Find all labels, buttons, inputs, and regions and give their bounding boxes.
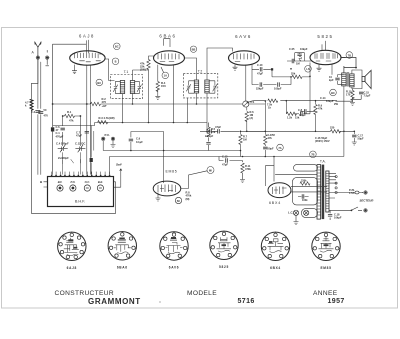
ref BC speaker — [330, 89, 337, 96]
antenna — [35, 42, 41, 57]
capacitor C5 47pF — [85, 131, 89, 133]
svg-text:T.2: T.2 — [198, 69, 203, 73]
B.H.F. tuner block — [48, 177, 114, 207]
resistor V2 cathode — [157, 72, 159, 96]
capacitor across primary — [338, 75, 344, 85]
svg-text:47μF: 47μF — [257, 72, 263, 76]
svg-text:0.1μF: 0.1μF — [299, 113, 306, 117]
cap in rect loop — [302, 194, 304, 198]
svg-text:170: 170 — [346, 93, 351, 97]
resistor 220k in rect loop — [300, 182, 310, 185]
tube V2 6BA6 envelope — [154, 39, 185, 123]
svg-text:100pF: 100pF — [274, 87, 282, 91]
svg-text:7.5μF: 7.5μF — [364, 94, 371, 98]
svg-text:6AJ8: 6AJ8 — [79, 34, 95, 39]
resistor 0.47M vert — [264, 131, 266, 134]
wire AVC line y150.5 — [103, 150, 240, 152]
svg-text:C.10: C.10 — [257, 63, 263, 67]
T2 trimmer capacitor right — [209, 81, 217, 93]
wire AF line y101 — [249, 101, 287, 132]
svg-text:6AV6: 6AV6 — [169, 266, 180, 270]
wire AVC into em85 zone — [240, 151, 242, 157]
terminal T — [45, 56, 49, 60]
svg-text:B.F.: B.F. — [58, 180, 63, 184]
wire antenna down and outer loop — [32, 60, 116, 214]
terminal pad — [271, 68, 273, 70]
ref LS — [305, 66, 312, 73]
tube V1 6AJ8 envelope — [70, 40, 105, 71]
socket base 6BA6 — [108, 231, 137, 269]
capacitor C2 50pF — [36, 111, 40, 113]
svg-text:(M): (M) — [186, 197, 190, 201]
ref MI — [207, 167, 214, 174]
wire screen bus y122.5-125.5 — [53, 123, 207, 126]
ground V4 — [317, 68, 322, 71]
capacitor C6 47pF — [61, 128, 65, 130]
svg-text:T.A.: T.A. — [320, 160, 326, 164]
svg-text:470k: 470k — [245, 167, 251, 171]
ref 17B — [310, 151, 317, 158]
capacitor C16 across mains — [329, 210, 331, 220]
svg-text:220: 220 — [330, 126, 335, 130]
T1 trimmer capacitor right — [135, 81, 142, 93]
IF transformer T1 box — [111, 75, 143, 99]
svg-text:6BX4: 6BX4 — [270, 266, 281, 270]
svg-text:6BX4: 6BX4 — [269, 201, 281, 205]
svg-text:BC: BC — [331, 91, 335, 95]
ref B — [112, 58, 119, 65]
wire HT to rectifier — [265, 157, 274, 187]
capacitor tone 0.1uF — [301, 110, 316, 112]
ground V3 pin — [234, 65, 236, 67]
svg-text:7B: 7B — [348, 53, 351, 57]
svg-text:0.1μF: 0.1μF — [136, 140, 143, 144]
TA core — [322, 165, 325, 220]
capacitor decoupling blob — [90, 158, 93, 162]
svg-text:+HT: +HT — [102, 104, 108, 108]
capacitor C10 — [260, 67, 262, 71]
electrolytic C 50uF — [353, 131, 355, 134]
wire V3 plate down — [243, 66, 245, 105]
resistor 220R — [331, 130, 341, 133]
svg-text:10kpF: 10kpF — [300, 47, 308, 51]
svg-text:6BA6: 6BA6 — [117, 265, 128, 269]
ref BB — [190, 46, 196, 52]
TA secondary winding — [326, 171, 329, 212]
svg-text:47pF: 47pF — [76, 134, 82, 138]
svg-text:(A): (A) — [250, 116, 254, 120]
ref BC mid — [96, 79, 103, 86]
svg-text:5825: 5825 — [317, 34, 333, 39]
svg-text:470: 470 — [102, 100, 107, 104]
grid network C05 — [287, 53, 310, 61]
HT loop 2 — [293, 178, 318, 205]
svg-text:2W: 2W — [334, 102, 338, 106]
socket base 6BX4 — [261, 232, 290, 270]
T1 secondary coil — [130, 81, 134, 94]
svg-text:BC: BC — [115, 45, 119, 49]
potentiometer P1 volume — [243, 101, 249, 107]
svg-text:150: 150 — [161, 84, 166, 88]
svg-text:2x460pF: 2x460pF — [58, 156, 69, 160]
wire T1 screen drop — [123, 94, 188, 123]
resistor det 25k — [272, 63, 310, 77]
svg-text:SC: SC — [177, 200, 181, 203]
wire screen feeds to block — [91, 126, 94, 175]
svg-text:5825: 5825 — [219, 265, 229, 269]
resistor R2 470 on bus — [91, 102, 101, 105]
capacitor C1 470pF — [51, 127, 54, 131]
tube V4 5825 envelope — [310, 41, 341, 75]
tube V3 6AV6 envelope — [229, 51, 260, 101]
svg-text:7A: 7A — [278, 146, 281, 150]
svg-text:220k: 220k — [301, 180, 307, 183]
output transformer core — [347, 72, 349, 87]
svg-text:GRAMMONT: GRAMMONT — [88, 297, 141, 306]
node dots — [122, 122, 124, 124]
mains switch — [347, 207, 362, 210]
svg-text:SECTEUR: SECTEUR — [360, 199, 375, 203]
svg-text:50μF: 50μF — [358, 137, 364, 141]
T2 trimmer capacitor left — [186, 81, 194, 93]
capacitor C3 470pF — [39, 112, 43, 114]
T2 primary coil — [194, 80, 198, 93]
resistor antenna 4.7k — [30, 100, 33, 111]
svg-text:6AV6: 6AV6 — [235, 34, 252, 39]
svg-text:10kpF: 10kpF — [334, 216, 342, 220]
TA taps — [329, 173, 347, 210]
wire T2 secondary to detector — [207, 48, 233, 131]
svg-text:1M: 1M — [243, 138, 247, 142]
svg-text:R.3: R.3 — [99, 116, 104, 120]
T1 trimmer capacitor left — [113, 81, 120, 93]
svg-text:BB: BB — [192, 48, 196, 52]
wire AF B+ continue — [286, 100, 337, 102]
svg-text:47k: 47k — [211, 130, 216, 134]
wire V1 plate to T1 — [105, 59, 115, 81]
svg-text:10kpF: 10kpF — [326, 99, 334, 103]
svg-text:EM85: EM85 — [166, 170, 178, 174]
svg-text:B: B — [115, 60, 117, 64]
wire B+ line y131.5 — [200, 130, 354, 132]
svg-text:MODELE: MODELE — [187, 290, 217, 297]
capacitor C near em85 — [219, 157, 243, 163]
svg-text:5716: 5716 — [238, 298, 255, 305]
wire T1 secondary to bus — [132, 94, 134, 105]
IF transformer T2 box — [183, 73, 218, 98]
wire detector line — [252, 68, 271, 70]
dial lamp — [304, 210, 309, 215]
wire V4 plate — [341, 58, 356, 73]
wave switch buttons — [57, 185, 104, 191]
output transformer secondary — [350, 74, 354, 87]
svg-text:LS: LS — [306, 67, 310, 71]
socket base 6AV6 — [160, 231, 189, 269]
coupling caps pair — [204, 130, 265, 132]
wire terminal T down — [46, 60, 49, 66]
trimmer C12 — [75, 145, 85, 153]
svg-text:L.C.: L.C. — [288, 211, 294, 215]
resistor 1.2k AF — [295, 113, 300, 115]
wire em85 feed — [131, 132, 164, 183]
svg-text:50pF: 50pF — [268, 147, 274, 151]
dot between — [160, 302, 161, 303]
svg-text:47k: 47k — [268, 136, 273, 140]
socket base 6AJ8 — [57, 232, 86, 270]
wire 6BX4 to TA taps — [275, 174, 327, 192]
svg-text:25k: 25k — [291, 71, 296, 75]
svg-text:22kpF: 22kpF — [256, 87, 264, 91]
svg-text:kpF: kpF — [329, 78, 334, 82]
wire V2 plate to T2 — [185, 58, 197, 80]
svg-text:1.2k: 1.2k — [287, 115, 293, 119]
svg-text:O.C.: O.C. — [85, 180, 91, 184]
svg-text:P.U.: P.U. — [105, 133, 110, 137]
svg-text:B.E.: B.E. — [98, 180, 103, 184]
svg-text:C.13: C.13 — [222, 155, 228, 159]
wire line y156.5 rounded to TA — [110, 86, 344, 175]
svg-text:47k: 47k — [318, 107, 323, 111]
svg-text:MI: MI — [209, 168, 212, 172]
ref 7B — [346, 52, 353, 59]
svg-text:C.05: C.05 — [289, 47, 295, 51]
wire grid feed — [53, 44, 87, 174]
resistor R3 4.7k — [98, 121, 108, 124]
svg-text:6AJ8: 6AJ8 — [67, 266, 77, 270]
block right exits — [114, 181, 116, 183]
svg-text:(1W): (1W) — [140, 68, 146, 72]
svg-text:ANNEE: ANNEE — [313, 290, 338, 297]
wire AVC resistor down — [149, 56, 154, 123]
svg-text:R.1: R.1 — [67, 110, 72, 114]
resistor 470k vert — [241, 163, 244, 173]
speaker HP — [352, 70, 362, 89]
caps C11 C12 row — [252, 65, 291, 85]
output transformer primary — [342, 73, 346, 86]
wire T1 grid out — [133, 70, 149, 81]
cathode resistor network — [336, 89, 362, 103]
tube V5 6BX4 envelope — [268, 183, 291, 198]
svg-text:BC: BC — [97, 81, 101, 85]
resistor R1 47k — [63, 115, 81, 117]
svg-text:1A: 1A — [164, 74, 167, 78]
resistor 4.7k vert — [315, 101, 317, 104]
socket base EM85 — [312, 232, 341, 270]
node 1A — [162, 72, 169, 79]
svg-text:C.4 240pF: C.4 240pF — [56, 141, 69, 145]
svg-text:470μF: 470μF — [56, 134, 64, 138]
ground V1 cathode — [72, 71, 77, 74]
T2 secondary coil — [205, 80, 209, 93]
svg-text:1M: 1M — [296, 62, 300, 66]
svg-text:7B: 7B — [311, 153, 314, 157]
wire HT bus y104 — [53, 103, 266, 105]
svg-text:CONSTRUCTEUR: CONSTRUCTEUR — [55, 290, 115, 297]
ref 17A — [277, 144, 284, 151]
resistor 7.5k — [268, 99, 278, 102]
resistor below pot 1M — [246, 107, 248, 131]
resistor 1M vert — [240, 131, 242, 134]
svg-text:47pF: 47pF — [222, 163, 228, 167]
ground EM85 — [157, 193, 159, 199]
lamp loop 3 — [302, 209, 318, 218]
ground V2 cathode — [155, 96, 160, 99]
svg-text:(350V) 150V: (350V) 150V — [315, 139, 330, 143]
svg-text:EM85: EM85 — [320, 266, 331, 270]
svg-text:47pF: 47pF — [215, 125, 221, 129]
ref BC top-left — [114, 43, 121, 50]
heater loop 1 — [294, 165, 318, 172]
svg-text:P.O.: P.O. — [70, 180, 75, 184]
wire V1 leads down to BHF — [87, 70, 91, 175]
svg-text:B.H.F.: B.H.F. — [75, 200, 85, 204]
terminals on top of block — [51, 175, 110, 177]
svg-text:6BA6: 6BA6 — [159, 34, 176, 39]
wire T2 primary bottom to bus — [196, 93, 198, 104]
socket base 5825 — [210, 231, 239, 269]
terminal secteur top — [364, 191, 368, 195]
resistor near T2 right — [206, 122, 208, 124]
trimmer C4 padding — [58, 145, 68, 153]
node secondary return — [343, 131, 345, 133]
tube V6 EM85 envelope — [153, 181, 181, 196]
TA primary winding — [317, 165, 321, 220]
T1 primary coil — [120, 81, 124, 94]
svg-text:1.5A: 1.5A — [349, 191, 355, 195]
terminal A — [36, 56, 40, 60]
svg-text:C.2: C.2 — [31, 110, 36, 114]
svg-text:C.12 DC: C.12 DC — [75, 141, 85, 145]
resistor AVC 22k — [147, 60, 150, 70]
svg-text:47k: 47k — [69, 119, 74, 123]
svg-text:470: 470 — [44, 114, 49, 118]
svg-text:100k: 100k — [302, 199, 308, 202]
wire branch verticals — [38, 60, 41, 175]
svg-text:4.7k(1W): 4.7k(1W) — [104, 116, 115, 120]
svg-text:T.1: T.1 — [124, 70, 129, 74]
ref SC — [175, 197, 181, 203]
svg-text:1957: 1957 — [328, 298, 345, 305]
capacitor C9 0.1uF — [129, 139, 133, 141]
terminal secteur bottom — [364, 209, 368, 213]
